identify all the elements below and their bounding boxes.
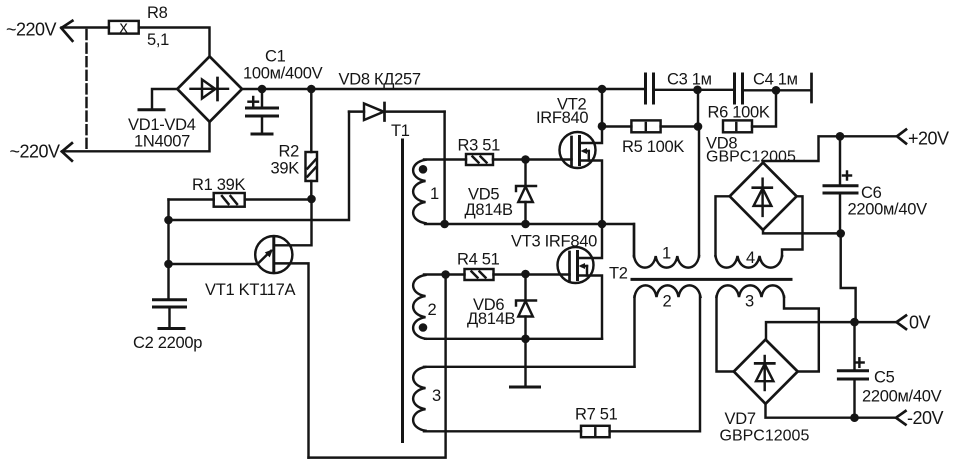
wire: w4 right to bridge VD8 AC2: [782, 196, 803, 256]
wire: midpoint to T2 winding 1: [602, 224, 634, 257]
wire: T1 w2 top to R4: [424, 273, 465, 275]
wire: rail C3 to C4: [654, 89, 735, 91]
capacitor C5 2200м/40V: [838, 322, 941, 418]
svg-text:GBPC12005: GBPC12005: [720, 428, 810, 445]
svg-text:~220V: ~220V: [10, 142, 61, 162]
bridge rectifier VD8 GBPC12005: [706, 134, 797, 230]
node: rail drain junction: [598, 85, 607, 94]
T2 winding 1: [634, 224, 699, 268]
resistor R8 (fusible): [109, 4, 169, 49]
svg-text:C2 2200p: C2 2200p: [133, 334, 202, 352]
svg-text:C6: C6: [861, 184, 882, 202]
svg-text:R1 39K: R1 39K: [192, 176, 246, 194]
wire: left vertical line: [167, 200, 169, 300]
wire: T1 w1 top to R3: [424, 158, 466, 160]
svg-text:-20V: -20V: [907, 408, 944, 428]
svg-text:0V: 0V: [909, 313, 931, 333]
wire: T2 w2 right leg to R7: [699, 297, 701, 432]
svg-text:R3 51: R3 51: [458, 137, 501, 155]
svg-text:IRF840: IRF840: [536, 109, 588, 127]
svg-text:Д814В: Д814В: [465, 201, 514, 219]
wire: VD8 - output: [763, 230, 841, 234]
T1 core: [401, 140, 404, 442]
wire: VT3 source line: [425, 338, 602, 340]
svg-text:C3 1м: C3 1м: [667, 71, 712, 89]
wire: gate line to VT3: [526, 273, 570, 275]
resistor R2 39K: [271, 89, 317, 199]
svg-text:VD7: VD7: [725, 410, 756, 428]
wire: half-bridge midpoint line: [425, 223, 602, 225]
resistor R5 100K: [602, 120, 698, 156]
svg-text:R5 100K: R5 100K: [622, 138, 684, 156]
phase dot T1 winding 2: [419, 323, 428, 332]
T1 winding 2: [413, 275, 436, 339]
svg-text:R2: R2: [279, 143, 300, 161]
terminal ~220V top: [6, 20, 72, 41]
svg-text:5,1: 5,1: [147, 31, 169, 49]
wire: bottom terminal to bridge bottom: [62, 122, 210, 151]
transformer T2: [609, 265, 791, 283]
node: C4/R6 junction: [772, 86, 781, 95]
wire: VD8 cathode down to midpoint: [443, 112, 445, 224]
wire: w3 left to bridge VD7 AC1: [717, 297, 734, 372]
wire: C3/C4 midpoint down to T2 winding 1: [698, 127, 700, 257]
svg-text:x: x: [120, 19, 129, 37]
svg-text:VT3 IRF840: VT3 IRF840: [511, 233, 597, 251]
transistor VT2 IRF840: [536, 96, 602, 225]
wire: rail C4 to end terminal: [743, 89, 812, 91]
wire: T1 w3 top to T2 w2: [424, 366, 635, 368]
svg-text:VD1-VD4: VD1-VD4: [128, 116, 196, 134]
svg-text:3: 3: [745, 293, 754, 311]
svg-text:4: 4: [746, 249, 755, 267]
wire: w4 left to bridge VD8 AC1: [716, 196, 730, 256]
transistor VT1 KT117A: [169, 199, 312, 458]
terminal: rail end bar: [810, 74, 813, 102]
svg-text:2: 2: [663, 293, 672, 311]
bridge rectifier VD1-VD4 1N4007: [128, 56, 242, 150]
svg-text:C5: C5: [874, 369, 895, 387]
node: C1 junction: [258, 85, 267, 94]
svg-text:~220V: ~220V: [6, 20, 57, 40]
T2 core: [632, 278, 791, 281]
node: VD6 top: [521, 270, 530, 279]
node: R1/R2 junction: [307, 195, 316, 204]
wire: VD7 - output to -20V rail: [766, 404, 897, 418]
svg-text:2: 2: [428, 301, 437, 319]
transistor VT3 IRF840: [511, 224, 602, 339]
svg-text:C4 1м: C4 1м: [753, 71, 798, 89]
dashed mains line: [85, 30, 87, 149]
wire: gate line to VT2: [526, 158, 572, 160]
svg-text:Д814В: Д814В: [467, 310, 516, 328]
svg-text:1N4007: 1N4007: [134, 133, 190, 151]
bridge rectifier VD7 GBPC12005: [720, 340, 810, 445]
wire: VT1 b1 to T1 winding 2 feed: [309, 275, 446, 458]
wire: w3 right to bridge VD7 AC2: [784, 297, 819, 372]
node: VT2 drain / R5: [598, 122, 607, 131]
node: VD5 top: [521, 155, 530, 164]
node: VD6 bottom: [521, 335, 530, 344]
terminal ~220V bottom: [10, 142, 72, 162]
node: VD8 cathode / T1 w1 bottom: [440, 220, 449, 229]
T2 winding 4: [716, 249, 783, 268]
svg-text:1: 1: [430, 185, 439, 203]
node: half-bridge midpoint: [598, 220, 607, 229]
node: VD5 bottom: [521, 220, 530, 229]
wire: top terminal to fuse R8: [62, 26, 109, 28]
wire: T1 w3 bottom to R7: [424, 430, 581, 432]
resistor R6 100K: [708, 90, 777, 132]
wire: VD8 + output to +20V: [763, 136, 897, 162]
wire: T2 w2 left leg: [633, 297, 635, 367]
svg-text:T2: T2: [609, 265, 628, 283]
ground: [511, 339, 540, 387]
svg-text:VT1 KT117A: VT1 KT117A: [205, 281, 296, 299]
svg-text:C1: C1: [265, 48, 286, 66]
resistor R4 51: [457, 251, 526, 281]
wire: midpoint vertical: [697, 90, 699, 127]
wire: main HV rail bridge to C3: [242, 88, 646, 90]
resistor R7 51: [575, 406, 700, 438]
capacitor C1 100м/400V: [243, 48, 323, 135]
node: R5/R6 junction: [694, 122, 703, 131]
capacitor C4 1м: [735, 71, 798, 104]
svg-text:2200м/40V: 2200м/40V: [862, 388, 942, 406]
svg-text:100м/400V: 100м/400V: [243, 65, 323, 83]
node: start pulse branch: [164, 216, 173, 225]
zener VD6 Д814В: [467, 275, 536, 339]
ground terminal at bridge left: [139, 89, 177, 110]
transformer T1: [391, 122, 410, 442]
capacitor C2 2200p: [133, 300, 202, 352]
node: R4 / start pulse: [441, 270, 450, 279]
svg-text:1: 1: [662, 245, 671, 263]
T1 winding 3: [413, 367, 441, 431]
svg-text:R6 100K: R6 100K: [708, 104, 770, 122]
resistor R3 51: [458, 137, 526, 166]
wire: to VD8 anode: [169, 112, 350, 220]
wire: VD8 minus to 0V rail: [841, 233, 856, 322]
T1 winding 1: [413, 160, 439, 223]
svg-text:R8: R8: [147, 4, 168, 22]
svg-text:R4 51: R4 51: [457, 251, 500, 269]
resistor R1 39K: [169, 176, 312, 207]
svg-text:39K: 39K: [271, 160, 300, 178]
terminal 0V: [897, 313, 931, 333]
svg-text:3: 3: [432, 387, 441, 405]
zener VD5 Д814В: [465, 160, 537, 225]
node: R2 top junction: [307, 85, 316, 94]
node: emitter branch: [164, 260, 173, 269]
node: C6 top: [836, 132, 845, 141]
diode VD8 КД257: [339, 70, 445, 120]
wire: drain to HV rail: [601, 89, 603, 126]
capacitor C3 1м: [646, 71, 712, 104]
svg-text:+20V: +20V: [908, 129, 949, 149]
T2 winding 3: [717, 285, 785, 310]
T2 winding 2: [635, 285, 701, 310]
capacitor C6 2200м/40V: [824, 136, 927, 233]
svg-text:T1: T1: [391, 122, 410, 140]
node: 0V junction: [850, 318, 859, 327]
svg-text:VD8 КД257: VD8 КД257: [339, 70, 421, 88]
wire: R8 to bridge top: [139, 28, 210, 57]
node: -20V junction: [850, 413, 859, 422]
svg-text:GBPC12005: GBPC12005: [706, 149, 796, 166]
terminal -20V: [896, 408, 944, 428]
node: C3/C4 midpoint: [693, 86, 702, 95]
phase dot T1 winding 1: [419, 165, 428, 174]
svg-text:R7 51: R7 51: [575, 406, 618, 424]
terminal +20V: [897, 129, 949, 149]
svg-text:2200м/40V: 2200м/40V: [848, 201, 928, 219]
wire: 0V rail: [766, 322, 897, 339]
node: C6 bottom: [836, 229, 845, 238]
